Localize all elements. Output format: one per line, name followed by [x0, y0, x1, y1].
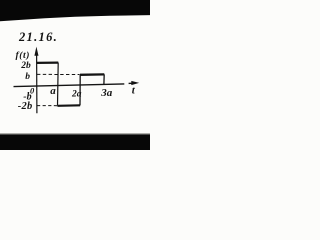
bottom band gray fringe [0, 133, 150, 134]
jump at t=a [57, 63, 60, 106]
x-axis arrow segment [129, 82, 133, 84]
svg-text:2b: 2b [20, 61, 31, 71]
top scan band [0, 0, 150, 21]
dashed guide at level -2b [37, 105, 57, 107]
svg-text:2a: 2a [71, 89, 82, 99]
x-axis arrowhead [131, 81, 139, 85]
svg-text:a: a [50, 85, 56, 97]
svg-text:-2b: -2b [18, 101, 33, 112]
segment f=-2b from a to 2a [57, 104, 80, 107]
y-axis arrowhead [34, 47, 38, 56]
svg-text:3a: 3a [100, 87, 113, 99]
segment f=2b from 0 to a [36, 61, 58, 64]
svg-text:b: b [25, 72, 30, 82]
x-axis [14, 84, 125, 87]
segment f=b from 2a to 3a [80, 73, 104, 76]
paper background [0, 0, 150, 150]
bottom scan band [0, 134, 150, 150]
svg-text:f(t): f(t) [16, 50, 31, 61]
y-axis [36, 53, 38, 113]
jump at t=3a [103, 74, 105, 84]
svg-text:21.16.: 21.16. [18, 30, 58, 44]
jump at t=2a [79, 75, 81, 106]
dashed guide at level b [37, 73, 80, 75]
